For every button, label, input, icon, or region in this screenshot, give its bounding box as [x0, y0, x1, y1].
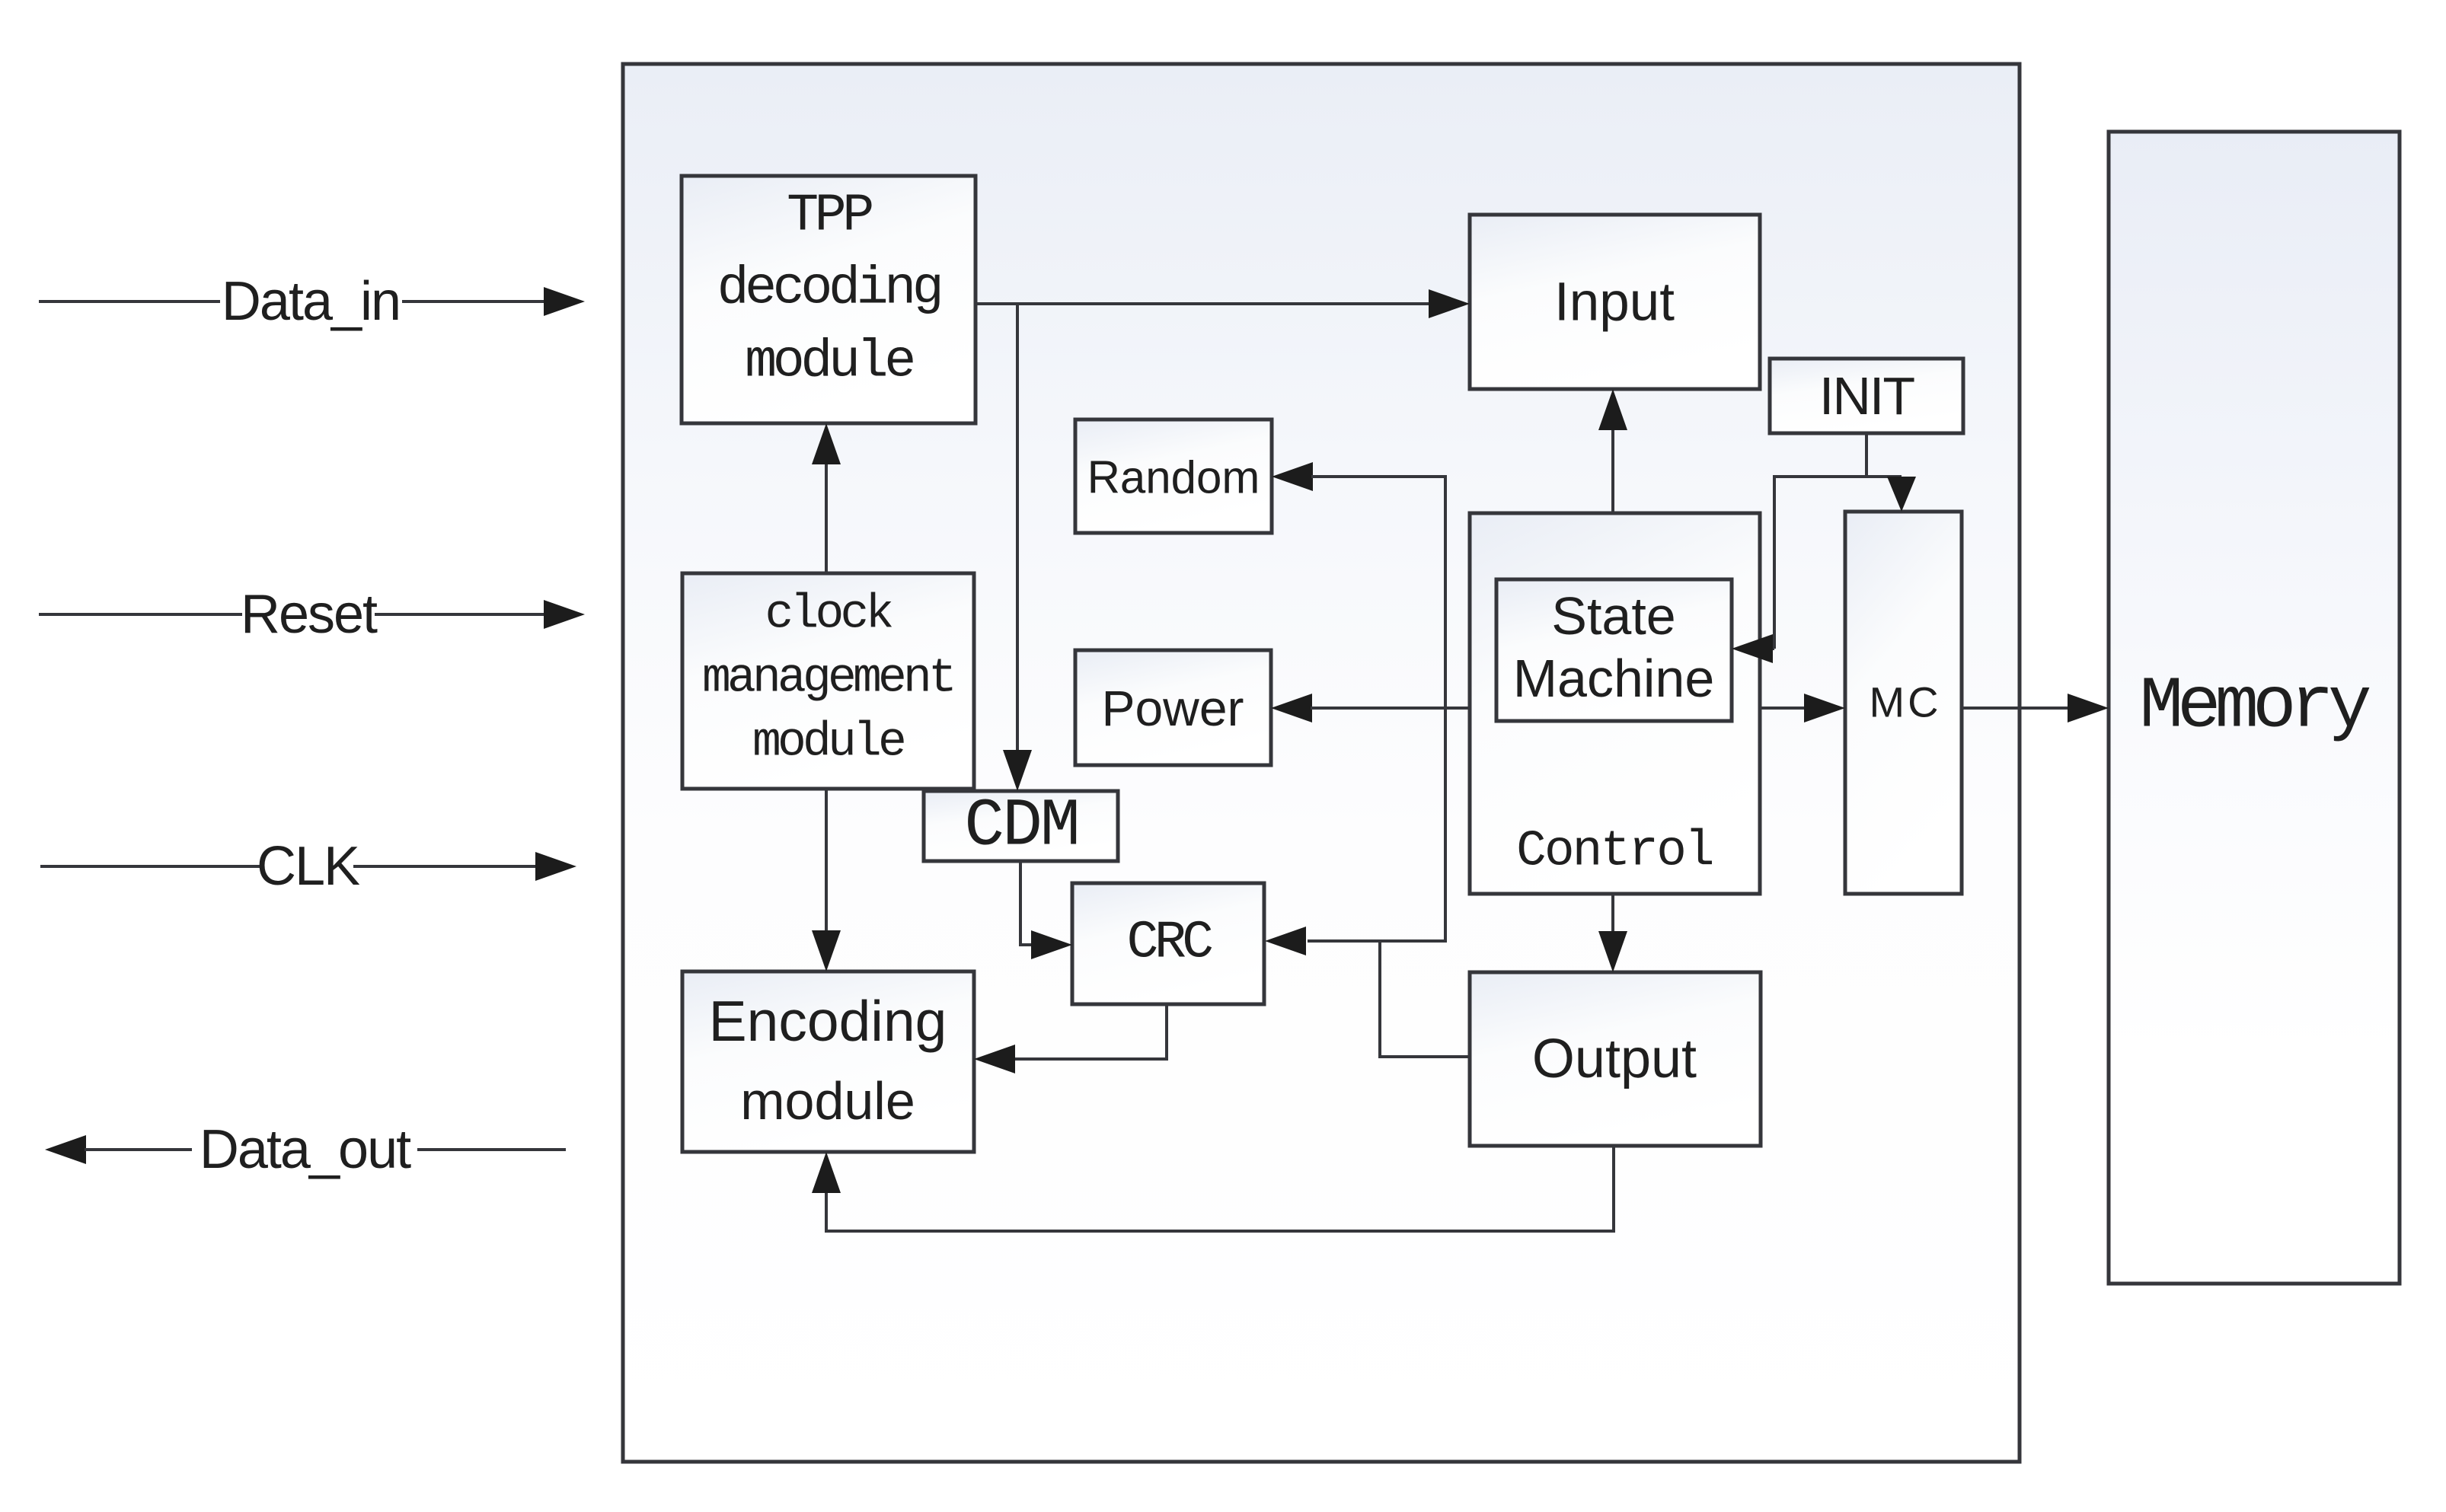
wire Data_out with arrow pointing left [45, 1135, 566, 1164]
Output block [1470, 972, 1761, 1146]
svg-text:CLK: CLK [257, 836, 360, 897]
label CDM [964, 789, 1078, 865]
svg-text:clock: clock [765, 588, 892, 642]
wire INIT branch down-left to State Machine with arrow [1732, 475, 1774, 663]
wire Output feedback down-left-up into Encoding with arrow [812, 1146, 1615, 1233]
Encoding module block [682, 971, 974, 1152]
svg-text:module: module [740, 1071, 915, 1131]
clock management module block [682, 573, 974, 789]
wire INIT bottom stub [1865, 433, 1868, 477]
CRC block [1072, 883, 1264, 1004]
State Machine block [1496, 579, 1732, 721]
wire INIT horizontal distribution segment [1773, 475, 1902, 478]
wire clock management up to TPP with arrow [812, 423, 841, 573]
TPP decoding module block [682, 176, 976, 423]
wire Control up to Input with arrow [1598, 389, 1627, 513]
svg-text:module: module [752, 716, 904, 770]
wire Reset with arrow into chip [39, 600, 585, 629]
wire CDM down then right into CRC with arrow [1019, 861, 1072, 959]
wire Output left then up joining CRC feed line [1380, 941, 1470, 1058]
svg-text:Reset: Reset [241, 584, 378, 645]
Random block [1075, 419, 1272, 533]
svg-text:management: management [702, 652, 953, 706]
svg-text:CDM: CDM [964, 789, 1078, 865]
wire Data_in with arrow into chip [39, 287, 585, 316]
svg-text:CRC: CRC [1127, 914, 1213, 974]
svg-text:Random: Random [1087, 452, 1260, 503]
label MC [1869, 678, 1941, 726]
wire branch TPP line down to CDM with arrow [1003, 304, 1032, 791]
svg-text:Input: Input [1554, 273, 1675, 333]
label CLK [257, 836, 360, 897]
svg-text:decoding: decoding [717, 260, 940, 320]
svg-text:Memory: Memory [2139, 665, 2370, 748]
label Reset [241, 584, 378, 645]
label State Machine [1513, 586, 1715, 708]
wire INIT branch down into MC with arrow [1887, 477, 1916, 512]
svg-text:INIT: INIT [1819, 366, 1914, 426]
svg-text:Machine: Machine [1513, 649, 1715, 708]
wire into Random with arrow [1272, 462, 1445, 491]
wire into CRC right side with arrow [1265, 927, 1445, 955]
label INIT [1819, 366, 1914, 426]
svg-text:Data_in: Data_in [222, 271, 400, 332]
label Memory [2139, 665, 2370, 748]
wire Control down to Output with arrow [1598, 894, 1627, 972]
svg-text:Power: Power [1101, 680, 1244, 736]
svg-text:module: module [745, 333, 913, 393]
wire vertical trunk beside Control [1444, 475, 1447, 943]
MC block [1845, 512, 1962, 894]
wire CLK with arrow into chip [40, 852, 576, 881]
wire MC to Memory with arrow [1962, 694, 2109, 723]
INIT block [1770, 359, 1963, 433]
svg-text:TPP: TPP [787, 187, 872, 247]
svg-text:MC: MC [1869, 678, 1941, 726]
wire TPP decoding to Input with arrow [976, 289, 1470, 318]
label Random [1087, 452, 1260, 503]
CDM block [924, 791, 1118, 861]
Input block [1470, 215, 1760, 389]
Power block [1075, 650, 1271, 765]
Control block [1470, 513, 1760, 894]
label Data_out [200, 1119, 411, 1180]
label Control [1516, 823, 1713, 880]
label Power [1101, 680, 1244, 736]
Memory block [2109, 132, 2400, 1284]
wire Control to MC with arrow [1760, 694, 1845, 723]
chip outer boundary box [623, 64, 2020, 1462]
wire clock management down to Encoding with arrow [812, 789, 841, 971]
svg-text:State: State [1551, 586, 1675, 646]
svg-text:Encoding: Encoding [709, 989, 947, 1053]
label Output [1532, 1029, 1697, 1089]
label Encoding module [709, 989, 947, 1131]
label Input [1554, 273, 1675, 333]
wire CRC down then left into Encoding with arrow [974, 1004, 1168, 1073]
label CRC [1127, 914, 1213, 974]
label Data_in [222, 271, 400, 332]
label TPP decoding module [717, 187, 940, 393]
svg-text:Data_out: Data_out [200, 1119, 411, 1180]
label clock management module [702, 588, 953, 770]
svg-text:Control: Control [1516, 823, 1713, 880]
svg-text:Output: Output [1532, 1029, 1697, 1089]
wire Control to Power with arrow [1271, 694, 1470, 723]
